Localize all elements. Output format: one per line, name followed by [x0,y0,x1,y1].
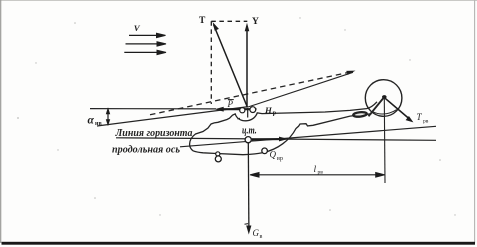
cg force arrow rightwards [252,138,282,140]
frame top edge [0,0,477,2]
vector Y arrowhead [245,23,250,31]
svg-text:нв: нв [95,121,102,127]
svg-text:T: T [417,112,423,122]
cg circle [245,137,251,143]
solid line hub to dashed arrow tip [248,72,353,107]
svg-text:V: V [134,23,141,33]
svg-text:Y: Y [252,17,259,27]
hub circles [240,108,245,113]
svg-text:T: T [199,16,206,26]
vector P arrow (leftwards) [219,108,257,110]
G arrowhead [246,226,251,235]
upper-left horizontal reference line [90,108,216,110]
vector Y line [246,26,248,108]
fuselage outline top [190,102,377,144]
left slant line to hub [97,107,247,126]
vertical stub below hub inside dome [247,108,249,118]
fuselage outline bottom [190,114,372,155]
svg-text:l: l [314,165,317,175]
tail rotor left leg line [369,97,385,116]
dashed vertical of force parallelogram [210,21,212,104]
vector T_rv arrow [384,97,410,119]
vertical force line from cg down to G [247,141,250,231]
vector T arrowhead [213,22,219,31]
rotor plane dashed line with arrow [150,72,350,115]
velocity arrow 3 [124,50,166,54]
tail boom gearbox ellipse [353,112,367,118]
vertical line from tail rotor to dimension line [383,98,386,183]
svg-text:рв: рв [423,119,429,125]
svg-text:вр: вр [277,155,283,162]
frame right edge [474,0,476,243]
svg-text:Q: Q [270,150,277,160]
svg-text:ц.т.: ц.т. [242,126,257,137]
svg-text:H: H [264,105,273,115]
dashed horizontal of force parallelogram [211,20,247,22]
tail rotor circle [365,80,402,117]
horizon line through cg [116,138,436,141]
vector T line [214,25,248,108]
dimension line l_rv [250,173,385,178]
svg-text:α: α [88,115,95,127]
small tick on G line [245,223,249,226]
svg-text:Линия горизонта: Линия горизонта [115,128,193,139]
alpha angle double arrow [107,109,110,124]
velocity arrow 1 [129,33,166,37]
frame left edge [0,0,2,243]
tail rotor angle arc [373,110,397,114]
rear wheel [262,148,268,154]
velocity arrow 2 [126,42,167,46]
small tick inside dome [237,117,240,120]
scan noise specks [17,17,456,215]
frame bottom black bar [2,242,476,245]
svg-text:G: G [253,228,260,238]
svg-text:в: в [260,234,263,240]
svg-text:P: P [227,99,234,109]
svg-text:продольная ось: продольная ось [112,145,180,156]
front wheel (double circle) [216,152,220,156]
tail rotor hub dot [382,95,387,99]
svg-text:рв: рв [318,170,324,176]
longitudinal axis line [180,126,436,147]
